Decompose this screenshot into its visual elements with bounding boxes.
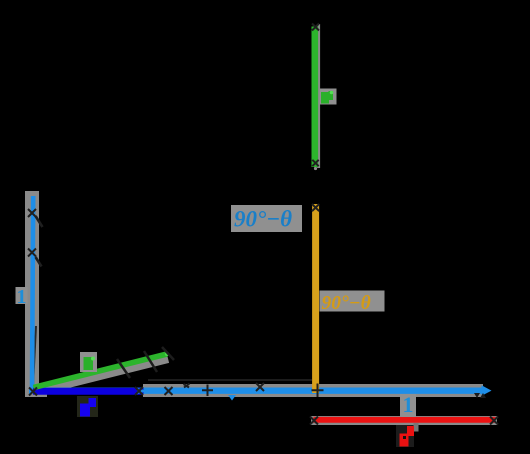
svg-text:90°−θ: 90°−θ <box>322 293 371 314</box>
svg-text:90°−θ: 90°−θ <box>234 207 292 232</box>
svg-text:1: 1 <box>403 392 414 417</box>
svg-text:1: 1 <box>17 286 27 308</box>
